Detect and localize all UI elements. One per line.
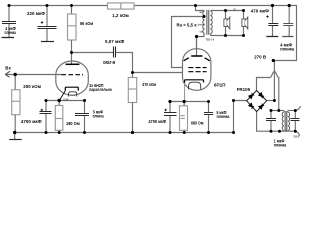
svg-text:230 В: 230 В: [293, 136, 299, 138]
svg-text:ОКБГ-М: ОКБГ-М: [103, 60, 116, 65]
svg-text:200 кОм: 200 кОм: [23, 84, 41, 89]
svg-text:470 кОм: 470 кОм: [142, 82, 156, 87]
svg-text:270 В: 270 В: [254, 55, 266, 60]
svg-text:пленка: пленка: [93, 114, 104, 119]
svg-text:0,07 мкФ: 0,07 мкФ: [105, 39, 125, 44]
svg-text:680 Ом: 680 Ом: [191, 121, 204, 126]
svg-text:180 Ом: 180 Ом: [66, 121, 80, 126]
svg-text:пленка: пленка: [280, 47, 294, 52]
svg-text:4700 мкФ: 4700 мкФ: [148, 119, 166, 124]
svg-text:Вх: Вх: [5, 65, 11, 70]
svg-text:пленка: пленка: [5, 30, 17, 35]
svg-text:4700 мкФ: 4700 мкФ: [21, 119, 42, 124]
svg-text:FR105: FR105: [237, 87, 251, 92]
svg-text:(пент): (пент): [198, 25, 205, 27]
svg-text:параллельно: параллельно: [89, 87, 112, 92]
svg-text:470 мкФ: 470 мкФ: [251, 9, 269, 14]
svg-text:ТВЗ-1-9: ТВЗ-1-9: [206, 39, 215, 41]
svg-text:Ra = 5,5 к: Ra = 5,5 к: [177, 22, 198, 27]
svg-text:6,3В: 6,3В: [64, 99, 69, 101]
svg-text:1,2 кОм: 1,2 кОм: [112, 13, 129, 18]
svg-text:пленка: пленка: [217, 114, 230, 119]
svg-text:220 мкФ: 220 мкФ: [27, 11, 45, 16]
svg-text:56 кОм: 56 кОм: [80, 21, 93, 26]
svg-text:пленка: пленка: [274, 143, 287, 148]
svg-text:син: син: [200, 31, 205, 33]
svg-text:зел: зел: [199, 12, 203, 14]
svg-text:6П1П: 6П1П: [214, 83, 225, 88]
